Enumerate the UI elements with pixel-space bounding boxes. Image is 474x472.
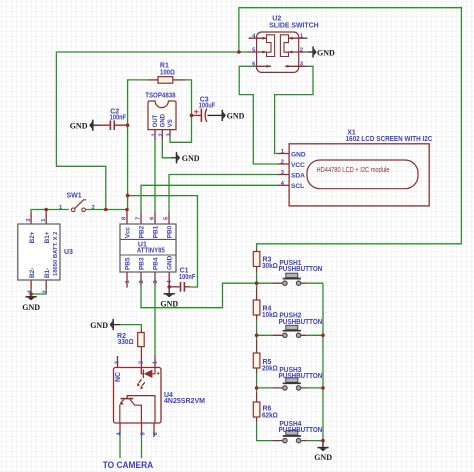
pin numbers U4 (115, 360, 159, 435)
node battery plus (44, 208, 48, 212)
pin stub U1 PB5 unconnected (126, 272, 128, 288)
pin stub U2 pin2 (288, 51, 308, 53)
switch SW1 (71, 200, 86, 212)
pin stub U3 pin2 (45, 280, 47, 289)
junction nodes (29, 50, 325, 442)
svg-text:100nF: 100nF (179, 274, 196, 281)
wire PB3 to R3/R4 node (141, 283, 257, 308)
node VCC top (237, 50, 241, 54)
pin stub U3 pin4 (30, 280, 32, 289)
svg-text:B2+: B2+ (29, 231, 36, 243)
svg-text:62kΩ: 62kΩ (262, 413, 278, 420)
pin stub U1 PB0 (168, 213, 170, 225)
wire R3 bottom lead green (256, 272, 258, 288)
node battery minus (29, 292, 33, 296)
svg-text:4N25SR2VM: 4N25SR2VM (164, 398, 205, 405)
svg-text:2: 2 (139, 361, 145, 364)
svg-text:PB4: PB4 (152, 257, 159, 270)
ground C3 (right arrow) (222, 110, 244, 121)
pushbutton PUSH4 (283, 431, 301, 443)
pin stub U2 pin3 (288, 65, 308, 67)
lead R2 bottom to U4 pin2 (140, 347, 142, 374)
lead C3 left (192, 114, 201, 116)
svg-text:PB3: PB3 (138, 257, 145, 270)
pin name NC U4 (115, 372, 122, 382)
wire VCC loop via top: node to U2 pin5 (56, 52, 248, 210)
label U3 (64, 249, 73, 256)
svg-text:PUSHBUTTON: PUSHBUTTON (279, 266, 323, 273)
lead C2 left and right (100, 124, 128, 126)
pin stub LCD pin2 (278, 163, 290, 165)
wire battery minus to GND (31, 289, 46, 294)
pin stub LCD pin1 (278, 153, 290, 155)
label R2 (117, 333, 134, 346)
wire R3/R4 node to PUSH1 (257, 282, 273, 284)
pin names TSOP (153, 113, 174, 127)
svg-text:ATTINY85: ATTINY85 (137, 247, 165, 254)
svg-text:GND: GND (22, 303, 40, 312)
label R5 (262, 359, 278, 373)
resistor R6 (253, 402, 260, 417)
label SW1 (67, 193, 82, 200)
pin numbers U2 (252, 34, 304, 68)
pin numbers LCD (281, 149, 285, 187)
wire pushbutton right rail (322, 283, 324, 440)
pin stub U1 PB4 (154, 272, 156, 285)
wire PUSH4 right to rail (306, 440, 323, 442)
lead PUSH1 left/right (273, 282, 306, 284)
pin stub U1 PB2 (140, 213, 142, 225)
wire battery B2+/B1+ to SW1 (31, 210, 69, 213)
pin names U3 (29, 231, 59, 278)
wire TSOP pin2 to GND (162, 140, 171, 158)
svg-text:30kΩ: 30kΩ (262, 263, 278, 270)
node VCC branch (126, 194, 130, 198)
svg-text:U3: U3 (64, 249, 73, 256)
svg-text:8: 8 (121, 216, 127, 220)
node U1 GND pin (167, 285, 171, 289)
svg-text:2: 2 (281, 160, 284, 166)
battery U3 box (18, 224, 60, 280)
svg-text:PB1: PB1 (152, 225, 159, 238)
pushbutton PUSH2 (283, 325, 301, 337)
resistor R2 (138, 333, 145, 347)
label R3 (262, 256, 278, 270)
optocoupler U4 box (114, 368, 162, 424)
svg-text:GND: GND (291, 151, 306, 158)
svg-text:VS: VS (168, 119, 174, 127)
svg-text:OUT: OUT (153, 114, 159, 127)
wire PUSH1 right to rail (306, 282, 323, 284)
svg-text:SLIDE SWITCH: SLIDE SWITCH (269, 22, 318, 29)
wire VCC branch to C1 (128, 196, 198, 287)
svg-text:B1+: B1+ (44, 231, 51, 243)
wire TSOP OUT to PB1 (154, 140, 156, 213)
svg-text:330Ω: 330Ω (118, 339, 134, 346)
svg-text:PB2: PB2 (138, 225, 145, 238)
wire U2 pin3 to LCD GND pin (275, 66, 313, 153)
wire R1 right / C3 / TSOP VS net (170, 80, 192, 142)
svg-text:2: 2 (300, 47, 303, 53)
label PUSH4 (279, 421, 323, 434)
label PUSH1 (279, 260, 323, 273)
wire PUSH2 right to rail (306, 334, 323, 336)
pin stub U2 pin1 (288, 37, 308, 39)
svg-text:PUSHBUTTON: PUSHBUTTON (279, 319, 323, 326)
pin names LCD (291, 151, 306, 190)
pin stub U4 pin1 (154, 356, 156, 368)
pin stub LCD pin4 (278, 184, 290, 186)
svg-text:GND: GND (182, 154, 200, 163)
wire PUSH2 left (257, 334, 273, 336)
svg-text:SCL: SCL (291, 183, 304, 190)
pin stub U1 PB1 (154, 213, 156, 225)
svg-text:20kΩ: 20kΩ (262, 366, 278, 373)
svg-text:Vcc: Vcc (124, 226, 131, 238)
svg-text:SDA: SDA (291, 172, 305, 179)
lead R4 bottom (256, 315, 258, 320)
svg-text:HD44780 LCD + I2C module: HD44780 LCD + I2C module (317, 167, 390, 174)
wire R6 to PUSH4 left (257, 422, 273, 441)
svg-text:100nF: 100nF (110, 115, 127, 122)
node R3/R4 (255, 281, 259, 285)
svg-text:PB0: PB0 (166, 225, 173, 238)
wire SDA: LCD pin3 to PB0 (169, 175, 278, 213)
pin stub U4 pin4 (119, 423, 121, 434)
pin stub U2 pin5 (249, 51, 267, 53)
pin numbers SW1 (59, 205, 95, 211)
wire U4 pin4 to camera (119, 434, 121, 458)
pushbutton PUSH1 (283, 273, 301, 285)
pin stub TSOP pin1 (154, 130, 156, 140)
pin stub U4 pin3 (117, 356, 119, 368)
node rail GND (321, 439, 325, 443)
lead R1 left (148, 79, 158, 81)
svg-text:PB5: PB5 (124, 257, 131, 270)
lead PUSH3 left/right (273, 387, 306, 389)
lead R3 top (256, 249, 258, 252)
IR receiver TSOP4838 (148, 101, 176, 130)
svg-text:GND: GND (314, 453, 332, 462)
lead R2 top (140, 329, 142, 333)
ground U2 pin2 (right arrow) (308, 46, 335, 57)
pin stub TSOP pin3 (169, 130, 171, 136)
svg-text:1602 LCD SCREEN WITH I2C: 1602 LCD SCREEN WITH I2C (346, 136, 433, 143)
svg-text:7: 7 (135, 217, 141, 220)
svg-text:2: 2 (159, 133, 165, 136)
label R6 (262, 406, 278, 420)
pin numbers U1 (121, 216, 173, 284)
svg-text:VCC: VCC (291, 162, 305, 169)
pin stub U1 Vcc (126, 210, 128, 225)
svg-text:100Ω: 100Ω (160, 69, 175, 76)
pin stub U4 pin5 (141, 423, 143, 434)
capacitor C3 (194, 109, 222, 122)
pin stub U1 GND (168, 272, 170, 287)
label R4 (262, 306, 278, 320)
ground R2 (left arrow) (90, 319, 120, 330)
phototransistor inside U4 (121, 398, 134, 400)
wire SCL: LCD pin4 to PB2 (141, 185, 278, 212)
LED emission arrows (139, 379, 145, 385)
node rail PUSH2 (321, 334, 325, 338)
pin stub LCD pin3 (278, 174, 290, 176)
svg-text:SW1: SW1 (67, 193, 82, 200)
pin numbers TSOP (151, 133, 172, 137)
svg-text:10kΩ: 10kΩ (262, 312, 278, 319)
ground U1 pin4 (down arrow) (160, 287, 178, 309)
wire SW1 pin2 to U1 VCC node (86, 209, 127, 211)
label C3 (199, 96, 216, 109)
label U1 (137, 241, 165, 254)
label U4 (164, 392, 205, 405)
wire PB4 down to U4 pin1 (154, 285, 156, 356)
lead R3 bottom (256, 267, 258, 272)
label HD44780 module (317, 167, 390, 174)
wire R5-R6 link (256, 373, 258, 392)
wire PUSH3 right to rail (306, 387, 323, 389)
label PUSH3 (279, 367, 323, 380)
ground PUSH4 rail (down arrow) (314, 441, 332, 463)
wire U2 pin6 to LCD VCC pin (239, 66, 277, 164)
capacitor C1 (181, 282, 185, 292)
node C3 (190, 114, 194, 118)
pin numbers U3 (26, 218, 49, 294)
svg-text:100uF: 100uF (199, 103, 216, 110)
node SW1 out (104, 208, 108, 212)
svg-text:GND: GND (90, 321, 108, 330)
svg-text:NC: NC (115, 372, 122, 382)
node U1 Vcc pin (125, 208, 129, 212)
lead C1 left (169, 286, 180, 288)
label U2 (269, 16, 318, 30)
lead R6 bottom (256, 417, 258, 422)
resistor R1 (158, 77, 173, 84)
svg-text:GND: GND (160, 299, 178, 308)
pin names U1 bottom (124, 255, 173, 270)
lead R5 top (256, 340, 258, 353)
svg-text:GND: GND (166, 255, 173, 270)
wire R4-R5 link (256, 320, 258, 341)
node rail PUSH3 (321, 386, 325, 390)
pin names U1 top (124, 225, 173, 238)
svg-text:GND: GND (70, 121, 88, 130)
pushbutton PUSH3 (283, 378, 301, 390)
lead R4 top (256, 288, 258, 301)
node C2 (126, 123, 130, 127)
lead R1 right (173, 79, 186, 81)
wire U4 pin5 to camera (141, 434, 143, 458)
ground TSOP pin2 (right arrow) (171, 152, 200, 163)
wire R1 left down via C2 node to VCC node (128, 80, 148, 210)
pin stub U4 pin6 unconnected (153, 423, 155, 437)
label TO CAMERA (103, 460, 154, 470)
svg-text:GND: GND (161, 113, 167, 127)
label PUSH2 (279, 313, 323, 326)
label C2 (110, 108, 127, 121)
ground C2 (left arrow) (70, 120, 100, 131)
svg-text:2: 2 (43, 290, 49, 293)
slide switch U2 box (257, 32, 299, 72)
label C1 (179, 268, 196, 282)
svg-text:B2-: B2- (29, 268, 36, 278)
wire big loop top-right down to R3 (239, 8, 462, 249)
node R4/R5 (255, 334, 259, 338)
label R1 (160, 63, 175, 77)
resistor R3 (253, 252, 260, 267)
label X1 (346, 130, 433, 143)
svg-text:TSOP4838: TSOP4838 (145, 93, 175, 100)
pin stub U2 pin4 (249, 37, 267, 39)
wire PUSH3 left (257, 387, 273, 389)
lead C1 right (185, 286, 190, 288)
ground U3 (down arrow) (22, 294, 40, 312)
pin stub U3 pin3 (30, 213, 32, 225)
LED inside U4 (152, 368, 155, 374)
lead R6 top (256, 392, 258, 402)
svg-text:2: 2 (92, 205, 95, 211)
svg-text:18650 BATT. X 2: 18650 BATT. X 2 (53, 232, 59, 276)
resistor R4 (253, 300, 260, 315)
pin stub U2 pin6 (255, 65, 271, 67)
svg-text:PUSHBUTTON: PUSHBUTTON (279, 373, 323, 380)
node R5/R6 (255, 386, 259, 390)
lead PUSH4 left/right (273, 440, 306, 442)
lead PUSH2 left/right (273, 334, 306, 336)
svg-text:TO CAMERA: TO CAMERA (103, 460, 154, 470)
pin stub TSOP pin2 (161, 130, 163, 140)
pin stub U3 pin1 (45, 210, 47, 225)
ATTINY85 U1 box (120, 224, 176, 272)
svg-text:GND: GND (317, 48, 335, 57)
LCD X1 box (289, 144, 429, 206)
resistor R5 (253, 353, 260, 368)
lead R5 bottom (256, 368, 258, 373)
svg-text:2: 2 (139, 280, 145, 283)
svg-text:GND: GND (227, 112, 245, 121)
pin stub U1 PB3 (140, 272, 142, 285)
label TSOP4838 (145, 93, 175, 100)
svg-text:B1-: B1- (44, 268, 51, 278)
capacitor C2 (110, 120, 114, 130)
wire GND to R2 top (120, 325, 141, 329)
svg-text:PUSHBUTTON: PUSHBUTTON (279, 427, 323, 434)
